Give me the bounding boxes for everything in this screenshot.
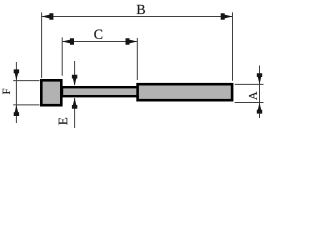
dimension line E lower [74, 98, 76, 128]
extension line A top [235, 83, 264, 85]
arrowhead E bottom [72, 98, 77, 109]
label A [249, 92, 257, 100]
extension line F bottom [13, 104, 39, 106]
wire [13, 12, 263, 128]
label B [137, 5, 145, 14]
shaft (thin section) [62, 87, 139, 96]
arrowhead B right [221, 13, 233, 20]
arrowhead C right [126, 38, 138, 45]
label C [94, 30, 102, 39]
extension line C right [136, 38, 138, 80]
arrowhead E top [72, 75, 77, 86]
arrowhead A top [257, 73, 262, 84]
arrowhead F bottom [14, 105, 19, 116]
arrowhead C left [62, 38, 74, 45]
label F [3, 89, 10, 94]
dimension line B [42, 16, 232, 18]
dimension line C [63, 41, 137, 43]
arrowhead B left [42, 13, 54, 20]
dimension line E upper [74, 61, 76, 85]
dimension line F [15, 62, 17, 123]
label E [59, 118, 68, 125]
extension line C left [61, 37, 63, 75]
head (left block) [41, 80, 61, 105]
arrowhead F top [14, 69, 19, 80]
extension line B left [41, 12, 43, 78]
extension line A bottom [235, 102, 264, 104]
body bar (right thick section) [138, 84, 233, 100]
dimension line A [259, 66, 261, 119]
extension line F top [13, 80, 39, 82]
arrowhead A bottom [257, 103, 262, 114]
extension line B right [232, 12, 234, 80]
